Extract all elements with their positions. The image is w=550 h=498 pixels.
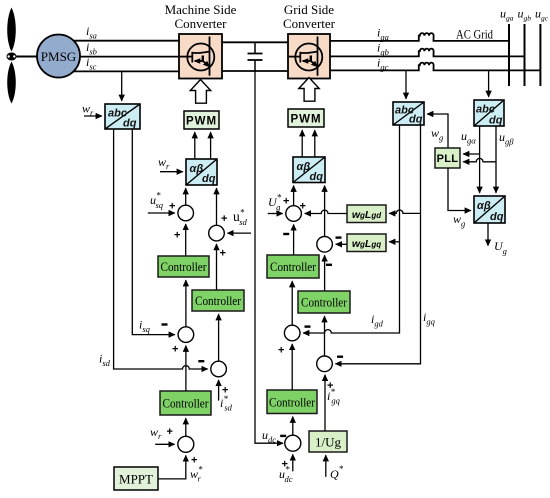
wire sum i_gd to controller g1	[291, 281, 293, 325]
svg-text:wgLgd: wgLgd	[352, 209, 382, 221]
wire u_galpha tap to PLL	[463, 153, 479, 155]
wire drop to machine abc/dq	[121, 71, 123, 100]
wire sum i_gq to controller g2	[324, 316, 326, 356]
wgLgq box	[347, 234, 386, 252]
svg-text:Controller: Controller	[163, 396, 210, 411]
svg-text:wgLgq: wgLgq	[352, 238, 381, 250]
svg-text:αβ: αβ	[477, 200, 491, 212]
minus sign u_dc	[280, 435, 286, 437]
wire sum q to grid ab/dq	[324, 186, 326, 237]
turbine hub	[7, 53, 17, 61]
dc link capacitor	[248, 42, 263, 71]
svg-text:dq: dq	[489, 115, 503, 127]
svg-text:+: +	[221, 213, 227, 225]
svg-text:+: +	[191, 455, 197, 467]
wire i_sd* ref dangling	[218, 380, 220, 401]
wire 1/Ug to sum i_gq	[324, 375, 326, 431]
wire w_r into ab/dq	[160, 171, 183, 173]
dc rail top	[222, 41, 288, 43]
svg-text:+: +	[169, 201, 175, 213]
hollow gate arrow grid side	[299, 78, 319, 102]
wire phase c machine	[72, 70, 179, 72]
wire ab/dq to PWM left	[194, 132, 196, 159]
hollow gate arrow machine side	[190, 80, 210, 104]
svg-text:AC Grid: AC Grid	[456, 27, 493, 42]
sum node i_gd	[284, 325, 300, 341]
shaft wire	[11, 56, 38, 58]
dc rail bottom	[222, 70, 288, 72]
wire w_g into grid current abc/dq	[427, 114, 448, 148]
1/Ug box	[309, 431, 347, 452]
PLL box	[435, 148, 460, 168]
wire wgLgd to sum U_g with hop	[305, 210, 347, 213]
svg-text:Grid Side: Grid Side	[284, 2, 334, 17]
wire Q* into 1/Ug	[325, 455, 327, 477]
wire sum i_sq to controller1	[185, 280, 187, 327]
svg-text:Controller: Controller	[301, 295, 348, 310]
wire wgLgq to sum q	[336, 243, 347, 245]
minus sign i_gd	[305, 325, 311, 327]
PMSG generator	[37, 35, 80, 78]
wire w_g from PLL to voltage ab/dq	[448, 168, 471, 211]
wire u_sd* into sum	[228, 232, 252, 234]
wire speed sum to controller3	[185, 418, 187, 436]
svg-text:Converter: Converter	[283, 16, 336, 31]
svg-text:1/Ug: 1/Ug	[315, 435, 342, 450]
wire i_gd feedback down and left with hop	[303, 125, 399, 333]
grid bus bar c	[539, 24, 541, 86]
sum node U_g	[286, 206, 302, 222]
controller box machine q axis	[158, 256, 209, 277]
wire u_dc sense down to sum	[255, 71, 283, 443]
wind turbine blades	[7, 8, 16, 104]
sum node q voltage	[317, 237, 333, 253]
wire u_gbeta tap to PLL with hop	[463, 158, 496, 161]
wire grid ab/dq to PWM left	[301, 130, 303, 157]
controller box grid d axis	[267, 255, 319, 278]
controller box speed	[160, 391, 211, 415]
converter U1 machine side box	[179, 34, 222, 79]
wire grid ab/dq to PWM right	[314, 130, 316, 157]
wire MPPT to speed sum	[158, 456, 186, 479]
minus sign i_sq	[162, 323, 168, 325]
wire ab/dq to PWM right	[210, 132, 212, 159]
abc/dq machine transform box	[105, 104, 140, 130]
wire u_sq* into sum	[148, 212, 175, 214]
sum node u_dc	[285, 435, 301, 451]
abc/dq grid current box	[393, 102, 424, 126]
svg-text:PLL: PLL	[437, 153, 459, 165]
wire i_gq feedback down and left	[336, 125, 421, 364]
wire w_r into speed sum	[155, 443, 174, 445]
grid bus bar a	[508, 24, 510, 86]
svg-text:+: +	[174, 230, 180, 242]
svg-text:+: +	[278, 345, 284, 357]
wire U_g* into sum	[268, 213, 283, 215]
wire grid phase b with inductor	[330, 49, 525, 57]
wire i_sd from abc/dq down and right	[114, 129, 208, 369]
wire i_gd tap to wgLgq	[389, 241, 399, 243]
sum node u_sd	[209, 225, 225, 241]
svg-text:dq: dq	[310, 171, 324, 183]
wire U_g output	[487, 223, 489, 246]
wire grid phase c with inductor	[330, 63, 540, 71]
wire u_galpha down to ab/dq voltage	[479, 126, 481, 193]
minus sign i_sd	[198, 360, 204, 362]
wire controller g2 to sum q	[324, 255, 326, 291]
wire i_sq from abc/dq down and right	[132, 129, 175, 335]
svg-text:Machine Side: Machine Side	[165, 2, 237, 17]
controller box dc voltage	[267, 390, 317, 414]
sum node i_gq	[317, 356, 333, 372]
minus sign wgLgq input	[336, 236, 342, 238]
sum node speed	[178, 436, 194, 452]
sum node i_sd	[211, 361, 227, 377]
svg-text:dq: dq	[123, 118, 137, 130]
wire controller3 to sum i_sq	[185, 346, 187, 391]
svg-text:PWM: PWM	[186, 116, 217, 128]
wire sum i_sd to controller2	[218, 314, 220, 361]
svg-text:+: +	[172, 344, 178, 356]
wire u_gbeta down to ab/dq voltage	[495, 126, 497, 193]
wire controller dc to sum i_gd	[291, 344, 293, 390]
wgLgd box	[347, 205, 386, 223]
sum node u_sq	[178, 205, 194, 221]
svg-text:+: +	[283, 196, 289, 208]
minus sign controller g2	[326, 264, 332, 266]
minus sign i_gq	[337, 356, 343, 358]
wire drop to grid voltage abc/dq	[488, 70, 490, 96]
wire grid phase a with inductor	[330, 33, 509, 41]
svg-text:Controller: Controller	[161, 259, 208, 274]
PWM box grid side	[288, 109, 324, 127]
alpha-beta/dq voltage box	[474, 196, 505, 223]
alpha-beta/dq grid box	[293, 157, 325, 183]
svg-text:dq: dq	[490, 211, 504, 223]
wire sum u_sd to ab/dq	[216, 188, 218, 225]
converter U2 grid side box	[288, 34, 330, 79]
sum node i_sq	[178, 327, 194, 343]
svg-text:Controller: Controller	[269, 395, 316, 410]
wire sum u_dc to controller dc	[292, 417, 294, 436]
svg-text:αβ: αβ	[297, 161, 311, 173]
controller box grid q axis	[298, 291, 350, 313]
PWM box machine side	[184, 111, 219, 129]
MPPT box	[114, 467, 158, 490]
abc/dq grid voltage box	[474, 100, 504, 127]
svg-text:Controller: Controller	[195, 293, 242, 308]
svg-text:dq: dq	[202, 173, 216, 185]
svg-text:dq: dq	[409, 114, 423, 126]
svg-text:+: +	[220, 248, 226, 260]
wire controller1 to sum u_sq	[185, 224, 187, 256]
svg-text:Controller: Controller	[270, 259, 317, 274]
svg-text:PMSG: PMSG	[41, 49, 76, 64]
minus sign controller g1	[283, 233, 289, 235]
svg-text:MPPT: MPPT	[119, 472, 153, 487]
svg-text:PWM: PWM	[290, 114, 321, 126]
wire controller g1 to sum U_g	[293, 225, 295, 256]
IGBT symbol machine side	[180, 37, 214, 76]
IGBT symbol grid side	[289, 37, 322, 76]
alpha-beta/dq machine box	[186, 159, 217, 185]
wire w_r into abc/dq	[84, 115, 102, 117]
wire u_dc* ref dangling	[292, 454, 294, 471]
wire phase b machine	[75, 56, 179, 58]
wire controller2 to sum u_sd	[216, 244, 218, 290]
wire drop to grid current abc/dq	[405, 70, 407, 98]
controller box machine d axis	[192, 290, 244, 311]
wire i_gq tap to wgLgd with hop	[389, 210, 420, 213]
wire phase a machine	[70, 40, 179, 42]
grid bus bar b	[524, 24, 526, 86]
wire sum u_sq to ab/dq	[185, 188, 187, 205]
svg-text:+: +	[167, 426, 173, 438]
svg-text:+: +	[300, 201, 306, 213]
svg-text:Converter: Converter	[175, 16, 228, 31]
wire sum U_g to grid ab/dq	[293, 186, 295, 206]
